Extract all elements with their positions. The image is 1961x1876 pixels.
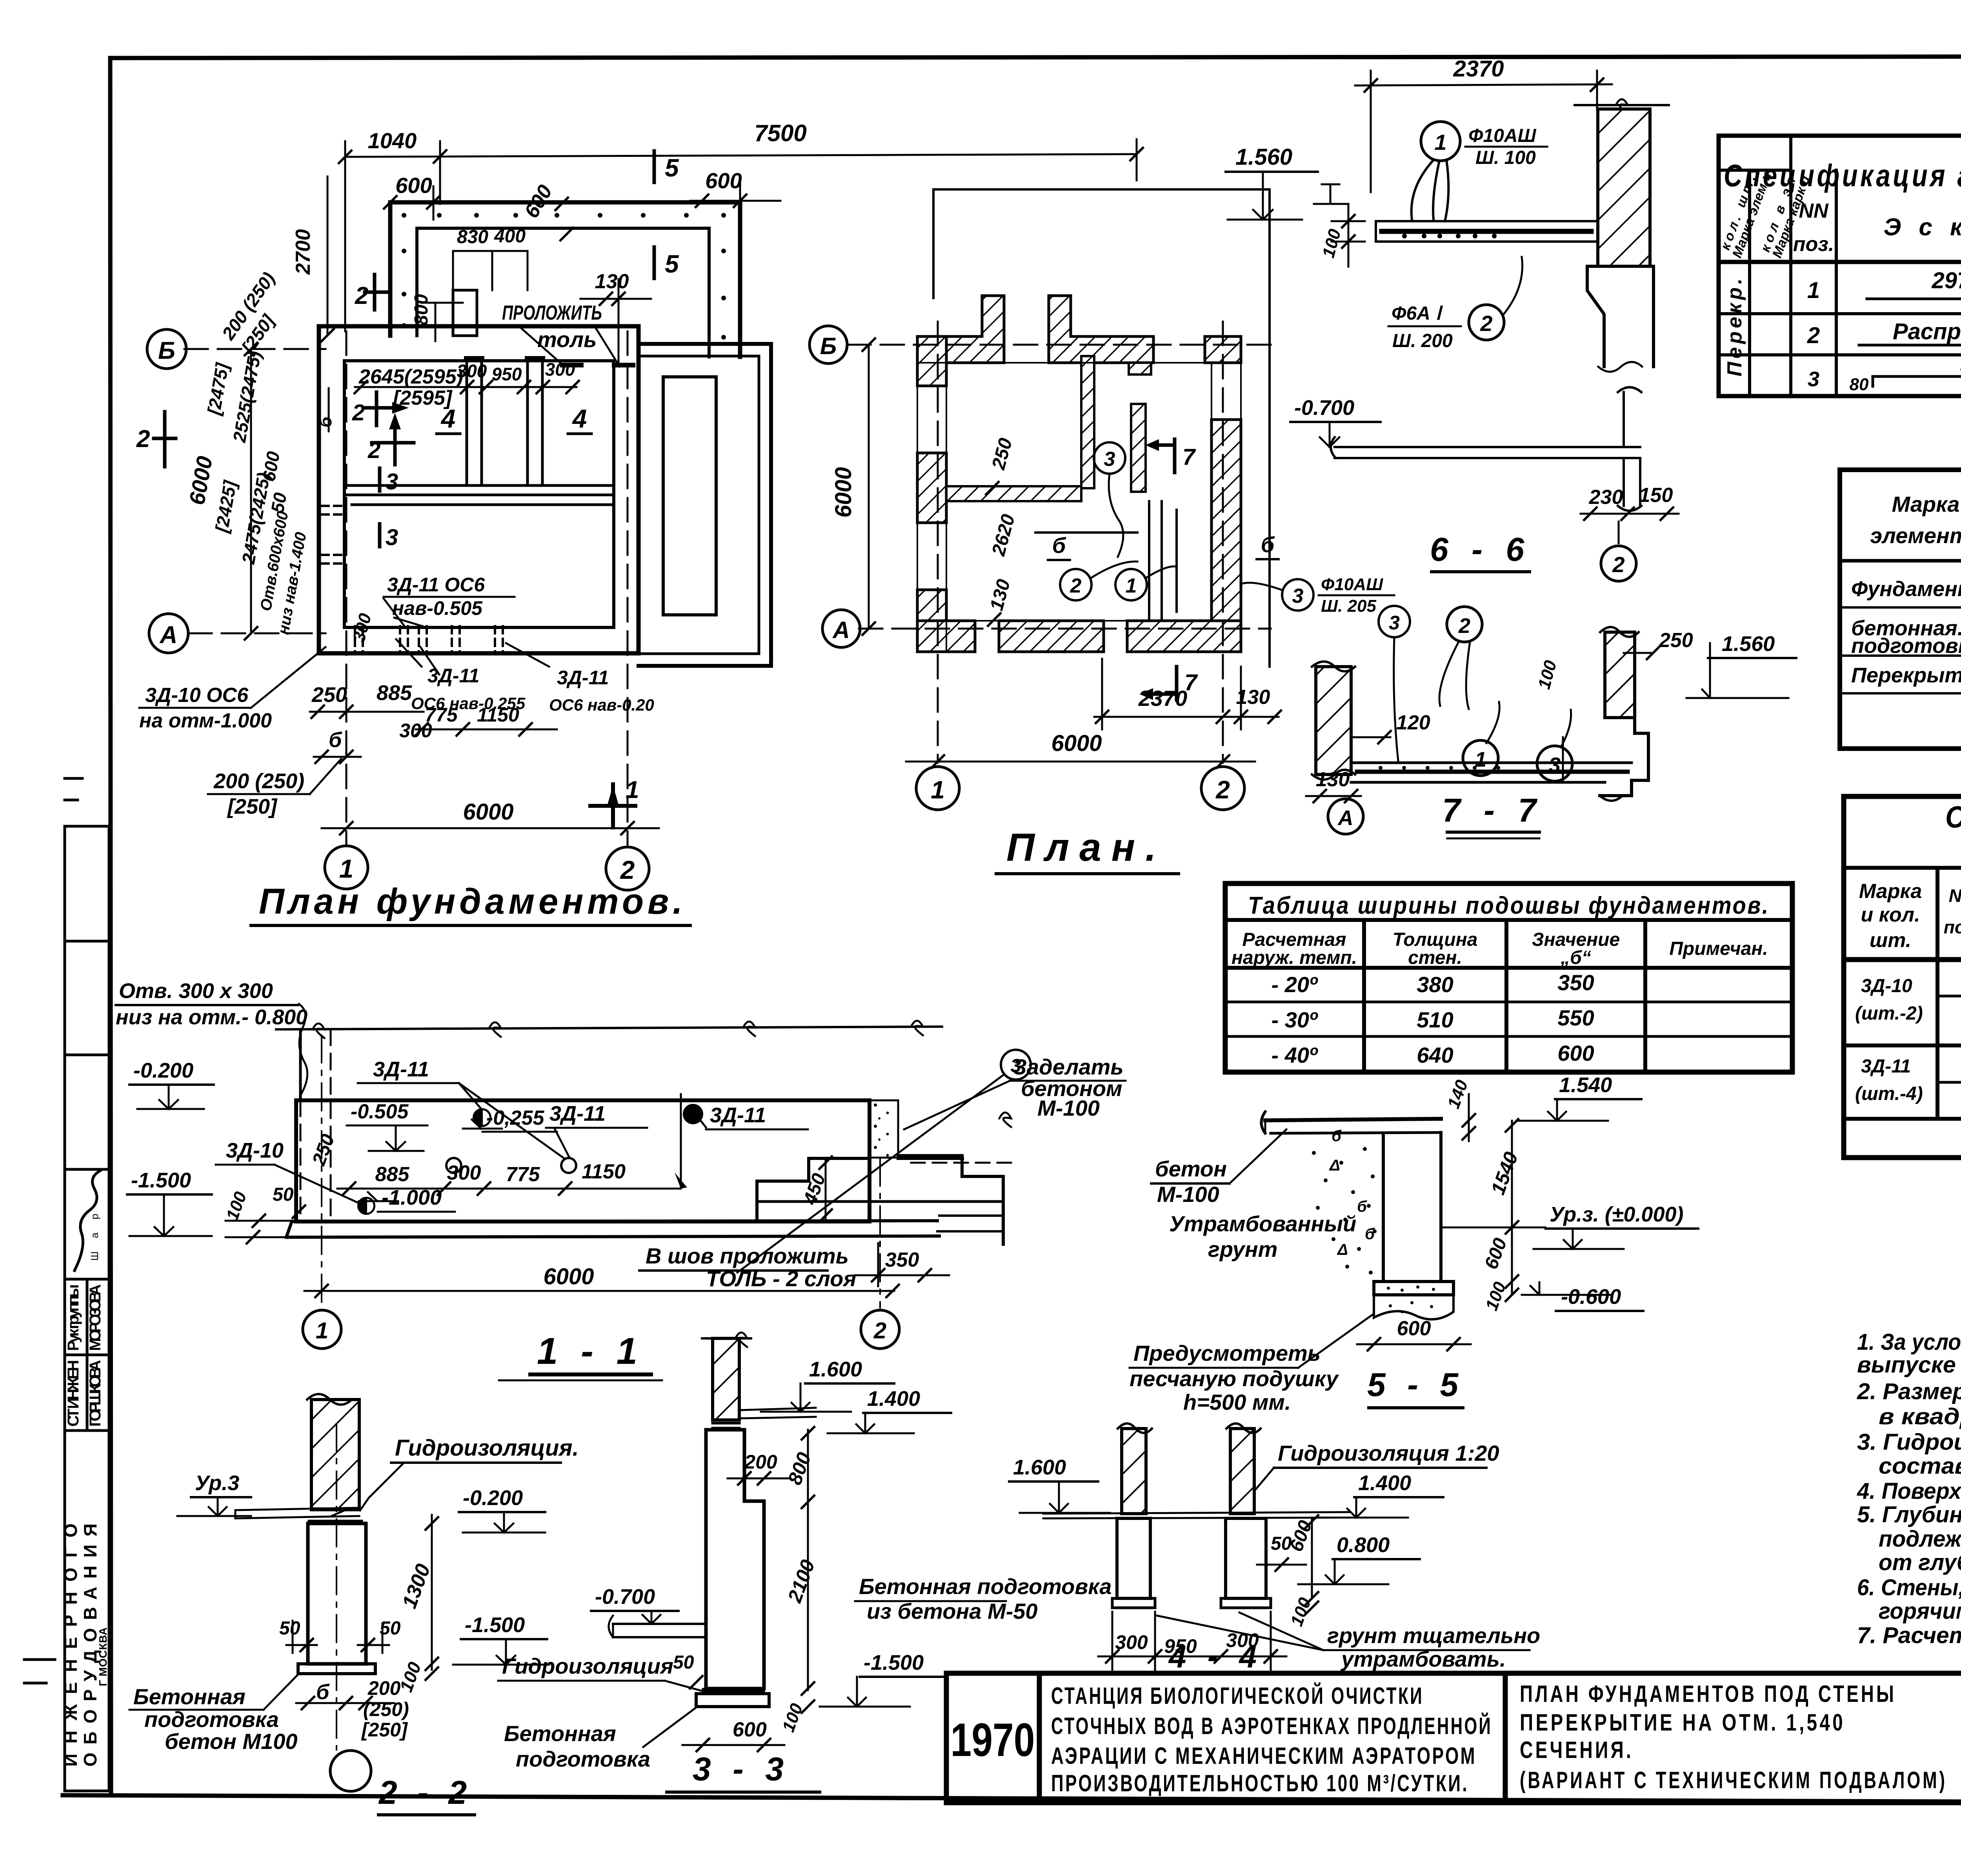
svg-text:-1.500: -1.500 [465,1613,525,1637]
partition top marks [464,356,545,362]
svg-text:230: 230 [1589,486,1623,509]
svg-text:СЕЧЕНИЯ.: СЕЧЕНИЯ. [1520,1737,1634,1763]
grid circle Б план [810,326,847,364]
5-5 slab [1261,1112,1441,1133]
svg-text:1. За условную отметку±0.00 пр: 1. За условную отметку±0.00 принята отме… [1857,1329,1961,1355]
drawing: sections 4-4 5-5 [904,1054,1698,1674]
svg-text:600: 600 [395,173,432,198]
таблица ширины rows [1272,970,1594,1067]
2-2 axis dash [336,1423,337,1750]
svg-text:4 - 4: 4 - 4 [1168,1639,1263,1674]
svg-text:бетон М100: бетон М100 [165,1729,298,1754]
svg-text:Заделать: Заделать [1013,1054,1124,1079]
svg-text:7: 7 [1184,670,1198,695]
svg-text:утрамбовать.: утрамбовать. [1340,1647,1506,1671]
svg-text:Распредел.: Распредел. [1893,319,1961,344]
svg-text:подготовка: подготовка [144,1707,279,1732]
spec row 1 [1807,268,1961,305]
svg-text:6000: 6000 [831,467,856,518]
svg-text:2: 2 [1215,776,1230,804]
svg-text:Таблица ширины подошвы фунд: Таблица ширины подошвы фундаментов. [1248,892,1770,919]
svg-text:2: 2 [352,400,365,425]
svg-text:ПРОИЗВОДИТЕЛЬНОСТЬЮ 100 М³/СУТ: ПРОИЗВОДИТЕЛЬНОСТЬЮ 100 М³/СУТКИ. [1051,1770,1469,1796]
callout Ф10АШ Ш.205 right [1282,579,1313,611]
svg-text:(шт.-2): (шт.-2) [1855,1003,1923,1024]
svg-text:План фундаментов.: План фундаментов. [259,882,686,922]
svg-text:СТОЧНЫХ ВОД В АЭРОТЕНКАХ ПРОДЛ: СТОЧНЫХ ВОД В АЭРОТЕНКАХ ПРОДЛЕННОЙ [1051,1713,1492,1739]
right extension inner [639,356,759,654]
svg-text:2970: 2970 [1931,268,1961,293]
section mark 3 lower [378,468,382,491]
сталь header [1859,880,1961,954]
stamp strip boxes [65,826,109,1791]
svg-text:б: б [1357,1198,1367,1215]
svg-text:низ на отм.- 0.800: низ на отм.- 0.800 [116,1005,307,1029]
svg-text:МОРОЗОВА: МОРОЗОВА [87,1284,104,1351]
svg-text:ГОРШКОВА: ГОРШКОВА [87,1360,104,1427]
svg-text:5. Глубина заложения принята д: 5. Глубина заложения принята для районов… [1857,1502,1961,1527]
left stamp strip [24,778,109,1791]
svg-text:Ф6А Ⅰ: Ф6А Ⅰ [1392,303,1443,324]
svg-text:3: 3 [386,469,398,494]
2-2 column [308,1523,366,1664]
axis dashed lines [184,331,628,846]
6-6 slab rebar heavy [1382,229,1591,234]
svg-text:-0.700: -0.700 [595,1585,655,1609]
svg-text:(шт.-4): (шт.-4) [1855,1083,1923,1104]
svg-text:1: 1 [1807,278,1820,303]
таблица ширины grid [1225,883,1792,1072]
callout circle 1 план [1115,569,1147,600]
svg-text:Отв. 300 х 300: Отв. 300 х 300 [119,979,273,1003]
wall notch below top wall [1129,363,1151,374]
svg-text:885: 885 [377,681,412,705]
svg-text:ОС6 нав-0.255: ОС6 нав-0.255 [411,694,526,713]
ring rebar dots [402,213,726,340]
upper footing ring outer [390,202,740,357]
svg-text:б: б [1261,532,1275,557]
left wall pier 2 [917,453,946,523]
3-3 footing [696,1694,769,1707]
svg-text:3Д-11 ОС6: 3Д-11 ОС6 [387,574,485,596]
4-4 floor lines [1043,1512,1349,1518]
svg-text:350: 350 [1557,970,1594,995]
svg-text:шт.: шт. [1870,929,1911,952]
svg-text:775: 775 [506,1163,540,1186]
svg-text:М-100: М-100 [1157,1182,1219,1207]
svg-text:1: 1 [1475,748,1486,771]
svg-text:Перекрытие: Перекрытие [1851,664,1961,687]
svg-text:Рук группы: Рук группы [65,1284,82,1351]
7-7 callout 2 [1447,607,1482,642]
svg-text:Примечан.: Примечан. [1669,938,1768,959]
svg-text:М-100: М-100 [1037,1096,1100,1120]
svg-text:6000: 6000 [463,799,513,825]
wall face thin lines [917,336,1241,652]
svg-text:Бетонная: Бетонная [504,1721,616,1746]
svg-text:поз.: поз. [1944,917,1961,937]
svg-text:1970: 1970 [951,1714,1035,1766]
svg-text:5: 5 [665,250,679,278]
dim 600 left [390,186,478,220]
svg-text:А: А [1337,806,1353,830]
drawing: sections 2-2 3-3 [129,1332,1111,1815]
svg-text:песчаную подушку: песчаную подушку [1130,1366,1339,1391]
svg-text:б: б [1052,533,1066,558]
svg-text:2. Размеры в круглых скобках д: 2. Размеры в круглых скобках для стен то… [1857,1379,1961,1404]
svg-text:1: 1 [316,1318,328,1343]
svg-text:640: 640 [1417,1043,1453,1067]
grid circle 2 [606,847,649,890]
svg-text:А: А [832,617,850,643]
2-2 hydro band [311,1508,359,1511]
table: спецификация арматуры [1718,136,1961,396]
grid circle А план [822,610,860,647]
left wall sleeve dashed [322,506,343,564]
svg-text:Ш. 205: Ш. 205 [1321,596,1376,616]
7-7 left wall hatched [1316,667,1351,774]
svg-text:120: 120 [1396,711,1430,734]
svg-text:3Д-11: 3Д-11 [557,667,609,689]
svg-text:250: 250 [1659,629,1693,652]
svg-text:80: 80 [1850,375,1869,394]
left dim vertical line [251,176,329,633]
drawing: план [810,144,1394,874]
svg-text:Δ: Δ [1329,1157,1340,1174]
svg-text:горячим битумом за 2 разд.: горячим битумом за 2 разд. [1879,1598,1961,1624]
svg-text:Ур.3: Ур.3 [195,1471,239,1495]
svg-text:3. Гидроизоляция стен из цемен: 3. Гидроизоляция стен из цементного раст… [1857,1429,1961,1455]
svg-text:выпуске очищенной воды из конт: выпуске очищенной воды из контактного ре… [1857,1352,1961,1378]
svg-text:План.: План. [1006,825,1166,869]
svg-text:4: 4 [440,404,456,433]
section mark 5 top [653,151,656,182]
opening marks on inner top wall [560,363,635,367]
wall pier top-middle [1049,296,1153,363]
svg-text:подготовка: подготовка [516,1747,650,1771]
svg-text:1: 1 [1434,130,1446,155]
3-3 wall hatched [713,1338,739,1420]
svg-text:подлежит корректировке при при: подлежит корректировке при привязке в за… [1879,1526,1961,1552]
svg-text:Гидроизоляция: Гидроизоляция [502,1654,673,1678]
svg-text:1.400: 1.400 [1358,1471,1411,1495]
3-3 wall body stepped [706,1430,764,1689]
table: спецификация стали [1844,796,1961,1158]
callout circle 2 план [1060,569,1091,600]
svg-text:Б: Б [158,337,175,364]
svg-text:Г МОСКВА: Г МОСКВА [97,1627,109,1686]
svg-text:„б“: „б“ [1560,947,1591,968]
svg-text:Бетонная подготовка: Бетонная подготовка [859,1574,1111,1599]
svg-text:грунт: грунт [1208,1237,1277,1262]
svg-text:толь: толь [537,327,597,352]
svg-text:б: б [316,416,335,427]
svg-text:350: 350 [885,1249,919,1271]
svg-text:2: 2 [1480,311,1492,336]
grid circle А [149,614,188,653]
svg-text:2700: 2700 [292,229,315,275]
interior wall horizontal hatched [946,486,1081,501]
расход header [1870,477,1961,558]
svg-text:-1.000: -1.000 [382,1186,442,1209]
vertical dim 6000 план [868,345,870,629]
svg-text:7500: 7500 [754,120,806,146]
svg-text:ОС6 нав-0.20: ОС6 нав-0.20 [549,696,654,714]
svg-text:АЭРАЦИИ С МЕХАНИЧЕСКИМ АЭРАТОР: АЭРАЦИИ С МЕХАНИЧЕСКИМ АЭРАТОРОМ [1051,1743,1477,1769]
grid circle 2 план [1201,767,1244,810]
interior mid wall [344,485,614,505]
svg-text:130: 130 [1316,768,1350,791]
section mark 1 bottom arrow [590,784,635,827]
svg-text:СТ ИНЖЕН: СТ ИНЖЕН [65,1360,82,1427]
svg-text:4. Поверхности стен подвала за: 4. Поверхности стен подвала затереть цем… [1857,1478,1961,1504]
6-6 wall ledge below [1587,266,1654,367]
svg-text:ПЕРЕКРЫТИЕ НА ОТМ. 1,540: ПЕРЕКРЫТИЕ НА ОТМ. 1,540 [1520,1709,1845,1736]
svg-text:3Д-10: 3Д-10 [226,1139,284,1162]
7-7 axis circle А [1328,799,1363,834]
svg-text:2: 2 [136,425,150,453]
svg-text:2: 2 [355,282,368,309]
3-3 floor slab right of wall [739,1408,816,1418]
svg-text:6000: 6000 [1051,731,1102,756]
1-1 left wall verticals [299,1029,302,1100]
svg-text:стен.: стен. [1408,947,1462,968]
svg-text:1: 1 [1126,574,1137,597]
1-1 bottom bedding [286,1221,939,1237]
svg-text:3: 3 [1549,753,1561,777]
сталь row ЗД-11 [1855,1049,1961,1104]
svg-text:подготовка: подготовка [1851,634,1961,658]
svg-text:2370: 2370 [1138,686,1188,711]
2-2 bottom circle [330,1751,371,1791]
сталь row ЗД-10 [1855,964,1961,1024]
5-5 backfill dots [1312,1127,1377,1274]
interior partition 2 [528,361,542,485]
section mark 5 lower [653,247,656,278]
svg-text:б: б [1332,1127,1342,1145]
wall pier top-left corner [917,296,1004,363]
rotated dims 250 2620 130 [986,436,1019,613]
svg-text:3Д-11: 3Д-11 [373,1058,429,1081]
svg-text:600: 600 [705,168,742,193]
svg-text:2: 2 [873,1318,886,1343]
svg-text:200 (250): 200 (250) [213,769,304,793]
right extension outer [639,344,771,666]
svg-text:NN: NN [1949,885,1961,906]
svg-text:600: 600 [1397,1317,1431,1340]
svg-text:-1.500: -1.500 [864,1651,924,1674]
section mark 7 upper [1159,439,1175,473]
svg-text:130: 130 [595,270,629,293]
right extension room [663,377,716,615]
svg-text:1: 1 [626,776,639,803]
grid circle 1 [325,846,368,889]
svg-text:800: 800 [411,294,432,325]
spec row 2 [1807,319,1961,348]
расход row перекрытие [1851,656,1961,694]
spec row 3 bracket sketch [1808,357,1961,394]
main block inner room [344,361,614,627]
svg-text:2: 2 [1612,552,1624,577]
svg-text:грунт тщательно: грунт тщательно [1327,1623,1540,1648]
svg-text:250: 250 [311,683,347,707]
ring pilaster [453,290,477,336]
svg-text:400: 400 [494,226,526,247]
6-6 callout 1 [1421,122,1460,161]
svg-text:1.560: 1.560 [1235,144,1292,170]
3-3 hydro band [713,1423,739,1428]
6-6 wall hatched [1598,109,1650,266]
svg-text:600: 600 [1557,1041,1594,1065]
upper footing ring inner [417,228,709,357]
svg-text:3: 3 [1104,448,1115,471]
svg-text:Ф10АШ: Ф10АШ [1468,125,1537,146]
svg-text:2 - 2: 2 - 2 [378,1774,472,1811]
svg-text:2: 2 [1458,614,1470,638]
svg-text:[250]: [250] [361,1719,408,1741]
main block outer [319,326,639,653]
1-1 ground line [276,1021,942,1038]
расход row бетонная подготовка [1851,612,1961,658]
svg-text:ТОЛЬ - 2 слоя: ТОЛЬ - 2 слоя [706,1266,856,1291]
title block sheet name [1520,1681,1947,1793]
spec table grid [1719,136,1961,396]
svg-text:1: 1 [931,776,945,804]
axis dash lines план [847,322,1271,763]
svg-text:б: б [329,728,342,752]
svg-text:от глубины промерзания.: от глубины промерзания. [1879,1550,1961,1575]
сталь table grid [1844,796,1961,1158]
left wall pier 1 [917,336,946,386]
svg-text:1.540: 1.540 [1559,1073,1612,1097]
interior partition lines right room [1149,501,1162,621]
1-1 right steps [757,1158,868,1221]
4-4 right wall hatched [1230,1429,1254,1514]
svg-text:и кол.: и кол. [1861,903,1920,926]
svg-text:3Д-11: 3Д-11 [710,1103,766,1127]
svg-text:5: 5 [665,154,679,182]
4-4 columns [1117,1518,1150,1598]
svg-text:600: 600 [733,1718,767,1741]
svg-text:2: 2 [620,855,635,884]
svg-text:6. Стены, соприкасающиеся с зе: 6. Стены, соприкасающиеся с землей, и фу… [1857,1575,1961,1600]
svg-text:2: 2 [367,438,380,463]
svg-text:поз.: поз. [1793,233,1834,256]
svg-text:Э с к и з: Э с к и з [1884,214,1961,241]
svg-text:1040: 1040 [368,128,417,153]
svg-text:Бетонная: Бетонная [133,1684,246,1709]
svg-text:1.400: 1.400 [867,1387,920,1411]
svg-text:510: 510 [1417,1007,1453,1032]
svg-text:СТАНЦИЯ БИОЛОГИЧЕСКОЙ ОЧИСТКИ: СТАНЦИЯ БИОЛОГИЧЕСКОЙ ОЧИСТКИ [1051,1683,1424,1709]
svg-text:(250): (250) [363,1698,409,1720]
svg-text:нав-0.505: нав-0.505 [392,597,483,619]
svg-text:-0,255: -0,255 [486,1107,545,1129]
5-5 footing [1374,1282,1453,1295]
svg-text:1.560: 1.560 [1722,632,1775,656]
svg-text:7: 7 [1182,444,1196,470]
svg-text:ПРОЛОЖИТЬ: ПРОЛОЖИТЬ [502,302,602,324]
svg-text:7 - 7: 7 - 7 [1442,792,1543,829]
svg-text:300: 300 [447,1162,481,1184]
svg-text:- 30º: - 30º [1272,1007,1318,1032]
svg-text:3: 3 [1808,367,1819,391]
drawing: план фундаментов [136,120,1143,925]
left outer dim texts rotated [184,229,335,636]
svg-text:200: 200 [367,1677,401,1699]
1-1 axis circle 2 [861,1310,899,1349]
callout circle 3 план [1094,442,1125,474]
svg-text:950: 950 [492,364,522,384]
2-2 floor wedge [235,1508,359,1518]
svg-text:0.800: 0.800 [1337,1533,1390,1557]
svg-text:3: 3 [1292,585,1304,607]
interior partition 1 [467,361,482,485]
svg-text:50: 50 [279,1618,300,1639]
svg-text:Спецификация, стали на одну шт: Спецификация, стали на одну штуку [1945,800,1961,834]
svg-text:бетон: бетон [1155,1156,1227,1181]
svg-text:1 - 1: 1 - 1 [537,1330,644,1372]
1-1 callout 3 top right [1001,1050,1031,1080]
section mark 2 arrow up [372,425,414,465]
примечания lines [1857,1329,1961,1648]
svg-text:5 - 5: 5 - 5 [1367,1366,1464,1403]
svg-text:50: 50 [673,1652,694,1673]
svg-text:-0.200: -0.200 [133,1059,193,1082]
svg-text:3: 3 [1389,612,1400,634]
grid circle Б [147,329,186,369]
7-7 slab [1351,763,1632,782]
svg-text:6000: 6000 [543,1264,594,1289]
таблица ширины header [1232,929,1768,968]
2-2 wall hatched [311,1400,359,1509]
svg-text:6 - 6: 6 - 6 [1430,531,1531,568]
right wall big pier [1212,420,1241,639]
svg-text:Ф10АШ: Ф10АШ [1321,575,1383,594]
1-1 wall band [296,1100,870,1222]
table: расход материалов [1840,394,1961,751]
1-1 concrete pier dotted [870,1100,898,1158]
svg-text:-0.600: -0.600 [1561,1285,1621,1309]
drawing: sections 6-6 7-7 [1290,56,1796,838]
svg-text:300: 300 [545,359,575,380]
7-7 right footing steps [1600,718,1648,796]
svg-text:(ВАРИАНТ С ТЕХНИЧЕСКИМ ПОДВАЛО: (ВАРИАНТ С ТЕХНИЧЕСКИМ ПОДВАЛОМ) [1520,1767,1947,1793]
stamp signature squiggle [75,1171,100,1271]
svg-text:Б: Б [820,333,837,359]
расход row фундаменты [1851,565,1961,609]
svg-text:в квадратных скобках - 380 мм.: в квадратных скобках - 380 мм. [1879,1404,1961,1429]
svg-text:Гидроизоляция.: Гидроизоляция. [395,1435,579,1461]
notes примечания [1857,1276,1961,1648]
svg-text:3: 3 [386,525,398,550]
svg-text:-1.500: -1.500 [131,1169,191,1192]
dim 600 right [690,182,780,220]
svg-text:550: 550 [1557,1005,1594,1030]
svg-text:380: 380 [1417,972,1453,997]
svg-text:б: б [316,1680,330,1704]
svg-text:-0.505: -0.505 [351,1100,409,1123]
7-7 callout 3 mid [1379,606,1410,637]
svg-text:830: 830 [457,227,488,247]
6-6 lower slab [1331,387,1641,511]
7-7 right wall hatched [1605,632,1635,718]
svg-text:3Д-11: 3Д-11 [549,1102,606,1125]
svg-text:-0.200: -0.200 [463,1486,523,1510]
svg-text:из бетона М-50: из бетона М-50 [867,1599,1038,1623]
svg-text:наруж. темп.: наруж. темп. [1232,947,1357,968]
svg-text:Ур.з. (±0.000): Ур.з. (±0.000) [1550,1203,1684,1226]
